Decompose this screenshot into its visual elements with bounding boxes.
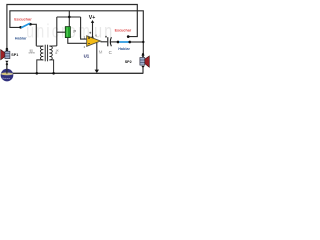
wire bar node to cap C1 and legs [57,11,87,46]
op-amp U1 [84,32,101,49]
SP2 magnet [140,58,145,66]
wire SP2 bottom leg [142,68,144,73]
svg-text:ohms: ohms [29,51,36,54]
SP2 cone [145,56,150,67]
wire secondary top stub [49,45,56,47]
wire primary bottom stub and leg [37,60,44,73]
node SW2 pole [117,41,120,44]
node SW2 upper contact [127,35,130,38]
capacitor C2 [105,36,111,47]
pin - mark [88,43,90,45]
svg-text:Unicrom: Unicrom [2,77,10,80]
node SP1 top [6,48,8,50]
SP1 cone [1,50,5,60]
svg-text:SP1: SP1 [11,53,18,57]
node bar junction [68,16,71,19]
node SW2 contact [128,41,131,44]
wire switch1 contact to transformer primary [31,24,37,46]
wire SP1 bottom leg [6,64,8,73]
switch SW2 lever [119,41,129,43]
ground arrow [95,70,99,73]
svg-text:V+: V+ [89,15,96,21]
svg-text:SP2: SP2 [125,60,132,64]
wire op-amp output to capacitor C2 [101,41,108,43]
SP1 bottom arrow [5,61,8,64]
wire ground bus [13,72,143,74]
svg-text:Hablar: Hablar [118,47,130,51]
wire SW2 contact to SP2 branch [130,41,144,43]
speaker SP2 [140,53,149,73]
wire V+ supply with arrow [92,22,94,38]
transformer T1 [29,45,59,74]
svg-text:C: C [109,50,112,55]
svg-text:P: P [73,29,76,34]
node SP2 branch junction [142,41,144,43]
transformer core [44,45,46,62]
svg-text:Hablar: Hablar [15,36,27,40]
svg-text:Ω: Ω [55,52,57,55]
pin + mark above triangle [89,32,91,34]
node SP1 bottom [6,63,8,65]
svg-text:Escuchar: Escuchar [14,16,32,21]
node SW1 pole [19,26,22,29]
wire op-amp ground leg [96,43,98,71]
wire outer loop top [7,5,137,49]
node bus junction T1 primary [36,72,39,75]
transformer primary winding [40,46,43,60]
speaker SP1 [1,48,10,73]
svg-text:Escuchar: Escuchar [115,29,132,33]
node bus junction T1 secondary [52,72,55,75]
wire secondary bottom stub and leg [49,60,53,73]
wire C1 bottom to op-amp inverting input [68,38,87,44]
node SW1 contact [29,23,32,26]
watermark unicrom [26,21,114,42]
SP1 magnet [5,51,10,58]
node SP2 top [142,53,144,55]
svg-text:U1: U1 [84,53,90,58]
wire C2 to switch SW2 pole [111,41,118,43]
switch SW1 lever [21,23,30,28]
wire primary top stub [36,45,43,47]
logo unicrom globe [1,69,14,82]
wire inner loop top [10,11,143,55]
transformer secondary winding [49,46,52,60]
pin + mark [88,37,90,39]
SP2 bottom arrow [141,66,144,69]
wire SP1 leg over logo [6,64,8,73]
polarity + mark [105,36,107,38]
svg-text:M: M [99,50,103,55]
capacitor C1 (green electrolytic) [65,27,70,38]
